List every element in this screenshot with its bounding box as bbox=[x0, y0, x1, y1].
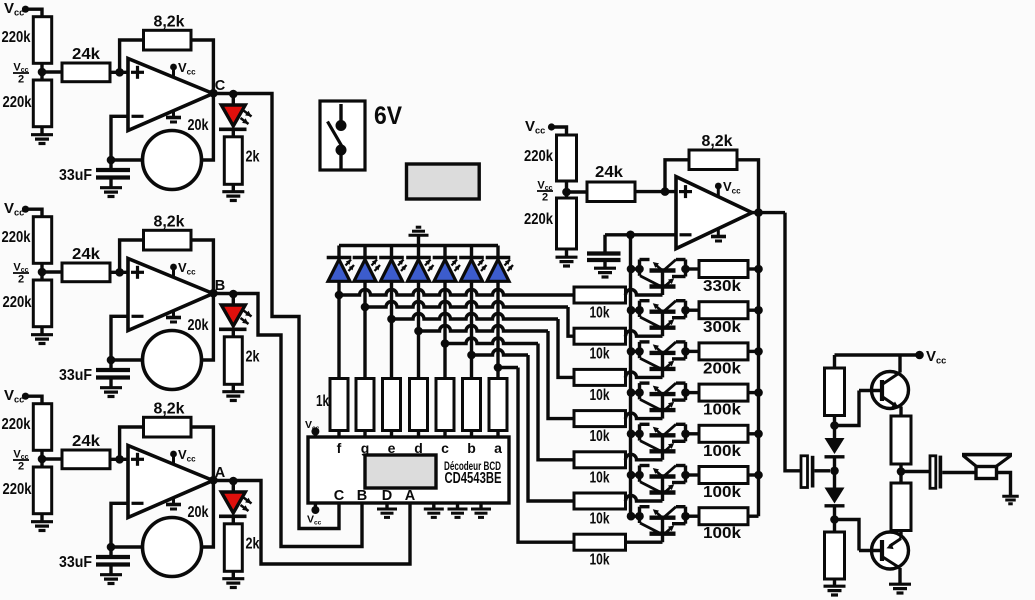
svg-text:100k: 100k bbox=[703, 402, 741, 419]
svg-text:220k: 220k bbox=[2, 229, 31, 246]
resistor R10k row 2 bbox=[574, 328, 626, 344]
junction collector bus row 5 bbox=[754, 430, 763, 439]
label decoder display window bbox=[365, 455, 436, 488]
wire resistor to bus row 5 bbox=[748, 432, 759, 435]
svg-text:220k: 220k bbox=[524, 148, 553, 165]
junction collector row 2 bbox=[681, 306, 690, 315]
ground pin op-amp U3 bbox=[172, 497, 175, 505]
svg-text:8,2k: 8,2k bbox=[154, 14, 185, 31]
op-amp U1 bbox=[128, 59, 213, 131]
junction base bus row 5 bbox=[627, 430, 636, 439]
svg-text:10k: 10k bbox=[590, 552, 610, 569]
svg-text:A: A bbox=[215, 465, 226, 481]
svg-text:8,2k: 8,2k bbox=[702, 133, 733, 150]
ground speaker bbox=[1002, 495, 1019, 498]
LED D9 blue segment 6 bbox=[470, 246, 473, 257]
svg-text:8,2k: 8,2k bbox=[154, 401, 185, 418]
svg-text:220k: 220k bbox=[2, 416, 31, 433]
wire resistor to bus row 6 bbox=[748, 473, 759, 476]
resistor R100k row 6 bbox=[699, 467, 748, 484]
svg-text:220k: 220k bbox=[3, 481, 32, 498]
wire cap to speaker bbox=[942, 471, 976, 474]
svg-text:330k: 330k bbox=[703, 278, 741, 295]
wire speaker to ground bbox=[997, 473, 1011, 496]
junction coupling cap node bbox=[830, 467, 839, 476]
svg-text:f: f bbox=[337, 440, 342, 456]
transistor pair Q2 ladder row 2 bbox=[631, 309, 640, 312]
ground LED common inverted bbox=[417, 236, 420, 246]
op-amp U3 bbox=[128, 446, 213, 518]
resistor R2c 24k input bbox=[62, 263, 110, 282]
junction matrix row 3 bbox=[387, 315, 396, 324]
wire minus input to RC bbox=[111, 503, 128, 547]
ground capacitor bbox=[100, 386, 122, 389]
svg-text:B: B bbox=[215, 278, 225, 294]
transistor Q9 PNP lower bbox=[872, 532, 909, 569]
junction base bus row 7 bbox=[627, 512, 636, 521]
svg-text:100k: 100k bbox=[703, 484, 741, 501]
wire divider to 24k bbox=[42, 457, 62, 460]
resistor R4c 24k bbox=[587, 182, 635, 202]
svg-text:24k: 24k bbox=[72, 433, 100, 450]
resistor R1a 220k upper divider bbox=[33, 17, 51, 64]
svg-text:A: A bbox=[405, 488, 416, 504]
ground pin decoder aux 1 bbox=[432, 503, 435, 508]
svg-text:b: b bbox=[467, 440, 476, 456]
svg-text:20k: 20k bbox=[188, 504, 209, 521]
wire cathode column 5 bbox=[443, 281, 446, 378]
resistor R10k row 6 bbox=[574, 493, 626, 509]
transistor pair Q6 ladder row 6 bbox=[631, 473, 640, 476]
svg-text:10k: 10k bbox=[590, 305, 610, 322]
resistor R23 emitter lower bbox=[891, 483, 911, 531]
wire 10k to emitter row 2 with hop bbox=[626, 331, 663, 337]
transistor pair Q5 ladder row 5 bbox=[631, 432, 640, 435]
IC U5 decoder CD4543BE bbox=[308, 437, 509, 503]
svg-text:220k: 220k bbox=[3, 294, 32, 311]
junction minus RC node bbox=[107, 543, 116, 552]
svg-text:2: 2 bbox=[18, 74, 24, 86]
resistor R4d 8.2k feedback bbox=[689, 150, 737, 170]
capacitor C5 coupling input bbox=[801, 456, 808, 488]
resistor R200k row 3 bbox=[699, 343, 748, 360]
wire 10k to emitter row 1 with hop bbox=[626, 290, 663, 296]
junction plus input bbox=[115, 455, 124, 464]
resistor R22 emitter upper bbox=[899, 407, 902, 417]
wire matrix row 7 to 10k bbox=[498, 366, 518, 369]
resistor R3e 2k LED bbox=[232, 516, 235, 524]
transistor pair Q1 ladder row 1 bbox=[631, 267, 640, 270]
resistor R3a 220k upper divider bbox=[33, 404, 51, 451]
capacitor C6 coupling output bbox=[930, 456, 936, 489]
diode D12 bias bbox=[833, 471, 836, 488]
resistor R1d 8.2k feedback bbox=[144, 30, 192, 50]
resistor R1b 220k lower divider bbox=[33, 80, 51, 127]
resistor R2d 8.2k feedback bbox=[144, 230, 192, 250]
transistor Q8 NPN upper bbox=[872, 372, 909, 409]
wire LED common bus bbox=[339, 244, 498, 247]
wire 10k to emitter row 7 with hop bbox=[626, 541, 663, 544]
wire to Q9 base bbox=[835, 520, 860, 551]
resistor R2a 220k upper divider bbox=[33, 217, 51, 264]
resistor R100k row 5 bbox=[699, 425, 748, 442]
junction upper base node bbox=[830, 421, 839, 430]
ground capacitor bbox=[100, 186, 122, 189]
wire 8.2k to output node bbox=[191, 427, 213, 547]
svg-text:8,2k: 8,2k bbox=[154, 214, 185, 231]
potentiometer P2 20k bbox=[143, 331, 202, 390]
svg-text:300k: 300k bbox=[703, 319, 741, 336]
wire resistor to bus row 4 bbox=[748, 391, 759, 394]
svg-text:100k: 100k bbox=[703, 443, 741, 460]
resistor R330k row 1 bbox=[699, 261, 748, 278]
svg-text:24k: 24k bbox=[72, 46, 100, 63]
svg-text:2: 2 bbox=[542, 192, 548, 204]
wire 24k to plus input bbox=[110, 458, 128, 461]
wire output B to decoder pin B bbox=[248, 294, 362, 547]
resistor R10k row 1 bbox=[574, 287, 626, 303]
wire matrix row 6 to 10k bbox=[472, 350, 529, 356]
wire output node right bbox=[752, 211, 785, 214]
resistor R1k column 6 bbox=[463, 379, 481, 431]
wire 10k to emitter row 3 with hop bbox=[626, 372, 663, 378]
ground pin decoder aux 3 bbox=[479, 503, 482, 508]
svg-text:D: D bbox=[382, 488, 392, 504]
LED D3 red indicator bbox=[232, 481, 235, 492]
capacitor C2 33uF bbox=[109, 360, 112, 368]
wire cathode column 2 bbox=[363, 281, 366, 378]
junction matrix row 4 bbox=[414, 327, 423, 336]
wire 24k to plus input bbox=[110, 71, 128, 74]
svg-text:10k: 10k bbox=[590, 387, 610, 404]
svg-text:1k: 1k bbox=[316, 393, 329, 410]
pin f decoder output bbox=[337, 431, 340, 438]
wire output A to decoder pin A bbox=[248, 481, 410, 565]
svg-text:200k: 200k bbox=[703, 360, 741, 377]
junction plus input right bbox=[661, 187, 670, 196]
ground pin op-amp U2 bbox=[172, 310, 175, 318]
ground divider bbox=[40, 514, 43, 521]
resistor R21 bias lower bbox=[833, 520, 836, 533]
junction LED tap A bbox=[229, 477, 238, 486]
LED D8 blue segment 5 bbox=[443, 246, 446, 257]
junction base bus row 3 bbox=[627, 347, 636, 356]
wire matrix row 4 to 10k bbox=[419, 326, 549, 332]
junction minus bus bbox=[626, 231, 635, 240]
LED D2 red indicator bbox=[232, 294, 235, 305]
svg-text:2k: 2k bbox=[246, 349, 260, 366]
wire output node B bbox=[213, 292, 248, 295]
svg-text:C: C bbox=[334, 488, 345, 504]
power Vcc pin op-amp U3 bbox=[172, 455, 175, 465]
capacitor C3 33uF bbox=[109, 547, 112, 555]
ground bias lower bbox=[833, 579, 836, 585]
svg-text:B: B bbox=[357, 488, 367, 504]
resistor R100k row 7 bbox=[699, 508, 748, 525]
junction matrix row 2 bbox=[361, 303, 370, 312]
wire 24k to plus input bbox=[110, 271, 128, 274]
label box blank bbox=[407, 164, 480, 199]
svg-text:CD4543BE: CD4543BE bbox=[445, 470, 502, 487]
resistor R100k row 4 bbox=[699, 384, 748, 401]
node A op-amp output bbox=[209, 476, 218, 485]
junction speaker output node bbox=[899, 464, 902, 483]
wire divider to 24k right bbox=[567, 190, 588, 193]
wire 8.2k to output node bbox=[191, 40, 213, 160]
wire divider to 24k bbox=[42, 70, 62, 73]
LED D7 blue segment 4 bbox=[417, 246, 420, 257]
junction LED tap B bbox=[229, 290, 238, 299]
junction base bus row 2 bbox=[627, 306, 636, 315]
wire resistor to bus row 2 bbox=[748, 309, 759, 312]
junction matrix row 5 bbox=[441, 339, 450, 348]
wire collector bus right ladder bbox=[757, 213, 760, 517]
capacitor C1 33uF bbox=[109, 160, 112, 168]
power Vcc rail output stage bbox=[835, 353, 920, 356]
junction collector bus row 3 bbox=[754, 347, 763, 356]
wire cathode column 4 bbox=[417, 281, 420, 378]
ground divider bbox=[40, 327, 43, 334]
LED D1 red indicator bbox=[232, 94, 235, 105]
svg-text:a: a bbox=[494, 440, 502, 456]
svg-text:c: c bbox=[441, 440, 449, 456]
wire 8.2k to output node bbox=[191, 240, 213, 360]
svg-text:10k: 10k bbox=[590, 469, 610, 486]
wire matrix row 3 to 10k bbox=[392, 314, 559, 320]
diode D11 bias bbox=[825, 438, 845, 454]
svg-text:2: 2 bbox=[18, 274, 24, 286]
wire Vcc to divider bbox=[26, 396, 43, 404]
resistor R4a 220k upper bbox=[557, 135, 577, 181]
resistor R10k row 4 bbox=[574, 411, 626, 427]
wire 8.2k to output right bbox=[737, 160, 759, 213]
wire to Q8 base bbox=[835, 391, 860, 426]
resistor R20 bias upper bbox=[833, 355, 836, 368]
wire minus input to RC bbox=[111, 316, 128, 360]
transistor pair Q3 ladder row 3 bbox=[631, 350, 640, 353]
junction collector row 3 bbox=[681, 347, 690, 356]
capacitor C4 filter bbox=[603, 235, 606, 252]
ground pin op-amp U4 bbox=[717, 229, 720, 236]
wire feedback right bbox=[665, 160, 689, 192]
ground capacitor right bbox=[594, 267, 616, 270]
junction output right op-amp bbox=[754, 208, 763, 217]
svg-text:C: C bbox=[215, 78, 226, 94]
junction collector row 4 bbox=[681, 388, 690, 397]
junction matrix row 1 bbox=[335, 291, 344, 300]
wire cathode column 6 bbox=[470, 281, 473, 378]
junction lower base node bbox=[830, 515, 839, 524]
ground divider right bbox=[565, 249, 568, 256]
junction collector bus row 1 bbox=[754, 265, 763, 274]
resistor R1e 2k LED bbox=[232, 129, 235, 137]
wire 24k to plus right bbox=[635, 190, 676, 193]
transistor pair Q7 ladder row 7 bbox=[631, 515, 640, 518]
power Vcc pin op-amp U4 bbox=[717, 187, 720, 197]
wire matrix row 1 to 10k bbox=[339, 290, 574, 296]
svg-text:24k: 24k bbox=[72, 246, 100, 263]
wire resistor to bus row 1 bbox=[748, 267, 759, 270]
wire minus input right bbox=[605, 233, 676, 236]
junction base bus row 1 bbox=[627, 265, 636, 274]
wire 10k to emitter row 5 with hop bbox=[626, 454, 663, 460]
wire resistor to bus row 7 bbox=[748, 515, 759, 518]
wire matrix row 5 to 10k bbox=[445, 338, 538, 344]
wire cathode column 1 bbox=[337, 281, 340, 378]
junction plus input bbox=[115, 68, 124, 77]
svg-text:20k: 20k bbox=[188, 317, 209, 334]
wire matrix row 2 to 10k bbox=[365, 302, 568, 308]
svg-text:2k: 2k bbox=[246, 149, 260, 166]
resistor R1k column 4 bbox=[410, 379, 428, 431]
pin a decoder output bbox=[496, 431, 499, 438]
transistor pair Q4 ladder row 4 bbox=[631, 391, 640, 394]
power Vcc pin decoder bottom bbox=[314, 503, 317, 510]
resistor R3c 24k input bbox=[62, 450, 110, 469]
svg-text:33uF: 33uF bbox=[59, 367, 92, 384]
wire Vcc to divider bbox=[26, 9, 43, 17]
switch S1 power bbox=[320, 101, 365, 170]
wire op-amp output to coupling cap bbox=[785, 213, 801, 471]
wire feedback to 8.2k bbox=[120, 427, 144, 459]
junction collector row 1 bbox=[681, 265, 690, 274]
node B op-amp output bbox=[209, 289, 218, 298]
pin g decoder output bbox=[363, 431, 366, 438]
LED D10 blue segment 7 bbox=[496, 246, 499, 257]
resistor R3d 8.2k feedback bbox=[144, 417, 192, 437]
ground capacitor bbox=[100, 573, 122, 576]
junction collector bus row 2 bbox=[754, 306, 763, 315]
svg-text:33uF: 33uF bbox=[59, 167, 92, 184]
svg-text:10k: 10k bbox=[590, 511, 610, 528]
junction collector row 5 bbox=[681, 430, 690, 439]
wire bias to diode chain bbox=[833, 416, 836, 439]
wire output node A bbox=[213, 479, 248, 482]
junction base bus row 4 bbox=[627, 388, 636, 397]
ground pin decoder aux 2 bbox=[456, 503, 459, 508]
wire output node to cap bbox=[901, 470, 930, 473]
svg-text:10k: 10k bbox=[590, 346, 610, 363]
op-amp U2 bbox=[128, 259, 213, 331]
svg-text:220k: 220k bbox=[524, 211, 553, 228]
resistor R10k row 5 bbox=[574, 452, 626, 468]
resistor R1k column 2 bbox=[356, 379, 374, 431]
resistor R2b 220k lower divider bbox=[33, 280, 51, 327]
svg-text:33uF: 33uF bbox=[59, 554, 92, 571]
svg-text:10k: 10k bbox=[590, 428, 610, 445]
junction matrix row 6 bbox=[467, 351, 476, 360]
resistor R1k column 5 bbox=[436, 379, 454, 431]
resistor R10k row 7 bbox=[574, 534, 626, 550]
svg-text:100k: 100k bbox=[703, 525, 741, 542]
junction LED tap C bbox=[229, 90, 238, 99]
wire divider to 24k bbox=[42, 270, 62, 273]
ground pin op-amp U1 bbox=[172, 110, 175, 118]
wire cathode column 7 bbox=[496, 281, 499, 378]
wire feedback to 8.2k bbox=[120, 40, 144, 72]
wire 10k to emitter row 6 with hop bbox=[626, 496, 663, 502]
resistor R2e 2k LED bbox=[232, 329, 235, 337]
junction base bus row 6 bbox=[627, 471, 636, 480]
svg-text:220k: 220k bbox=[3, 94, 32, 111]
resistor R10k row 3 bbox=[574, 369, 626, 385]
wire cathode column 3 bbox=[390, 281, 393, 378]
svg-text:6V: 6V bbox=[374, 102, 402, 130]
junction minus RC node bbox=[107, 356, 116, 365]
potentiometer P1 20k bbox=[143, 131, 202, 190]
power Vcc pin decoder top bbox=[314, 432, 317, 437]
ground divider bbox=[40, 127, 43, 134]
LED D5 blue segment 2 bbox=[363, 246, 366, 257]
junction collector bus row 6 bbox=[754, 471, 763, 480]
junction collector row 6 bbox=[681, 471, 690, 480]
svg-text:2k: 2k bbox=[246, 536, 260, 553]
pin d decoder output bbox=[417, 431, 420, 438]
wire feedback to 8.2k bbox=[120, 240, 144, 272]
wire Vcc to divider bbox=[26, 209, 43, 217]
wire 10k to emitter row 4 with hop bbox=[626, 413, 663, 419]
LED D4 blue segment 1 bbox=[337, 246, 340, 257]
resistor R300k row 2 bbox=[699, 302, 748, 319]
power Vcc pin op-amp U2 bbox=[172, 268, 175, 278]
resistor R4b 220k lower bbox=[557, 198, 577, 249]
wire Q9 collector to ground bbox=[898, 568, 901, 583]
svg-text:220k: 220k bbox=[2, 29, 31, 46]
op-amp U4 bbox=[676, 177, 752, 249]
pin b decoder output bbox=[470, 431, 473, 438]
wire Q8 collector to Vcc bbox=[898, 355, 901, 373]
speaker LS1 bbox=[962, 453, 1012, 457]
wire resistor to bus row 3 bbox=[748, 350, 759, 353]
junction collector bus row 4 bbox=[754, 388, 763, 397]
node C op-amp output bbox=[209, 89, 218, 98]
resistor R1k column 3 bbox=[383, 379, 401, 431]
svg-text:2: 2 bbox=[18, 461, 24, 473]
power Vcc pin op-amp U1 bbox=[172, 68, 175, 78]
junction matrix row 7 bbox=[494, 363, 503, 372]
junction plus input bbox=[115, 268, 124, 277]
junction minus RC node bbox=[107, 156, 116, 165]
ground 2k resistor bbox=[232, 384, 235, 390]
wire base bus left ladder bbox=[629, 235, 632, 516]
potentiometer P3 20k bbox=[143, 518, 202, 577]
wire minus input to RC bbox=[111, 116, 128, 160]
resistor R1c 24k input bbox=[62, 63, 110, 82]
ground 2k resistor bbox=[232, 571, 235, 577]
pin e decoder output bbox=[390, 431, 393, 438]
resistor R3b 220k lower divider bbox=[33, 467, 51, 514]
svg-text:24k: 24k bbox=[595, 164, 623, 181]
pin c decoder output bbox=[443, 431, 446, 438]
LED D6 blue segment 3 bbox=[390, 246, 393, 257]
resistor R1k column 1 bbox=[330, 379, 348, 431]
svg-text:20k: 20k bbox=[188, 117, 209, 134]
junction collector row 7 bbox=[681, 512, 690, 521]
ground pin D decoder bbox=[385, 503, 388, 508]
resistor R1k column 7 bbox=[489, 379, 507, 431]
wire output C to decoder pin C bbox=[248, 94, 339, 529]
wire Vcc to divider right bbox=[552, 127, 567, 135]
wire output node C bbox=[213, 92, 248, 95]
ground 2k resistor bbox=[232, 184, 235, 190]
